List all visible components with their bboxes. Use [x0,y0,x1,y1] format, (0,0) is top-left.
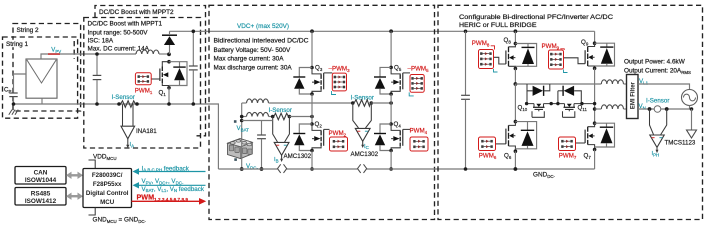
svg-text:IC: IC [364,144,369,150]
wire EMI to AC (N) with hall sensor [638,108,692,110]
PWM4 box [410,137,428,151]
svg-text:ISOW1044: ISOW1044 [25,177,57,184]
resistor shunt (boost I-sensor) [117,101,139,107]
wire R1 to phase1 column [289,116,312,118]
transistor Q5 [391,67,410,94]
DC/DC Boost with MPPT2 dashed box [95,6,206,136]
VDD wire [89,160,96,169]
wire to bottom rail [390,151,392,170]
svg-text:Battery Voltage: 50V- 500V: Battery Voltage: 50V- 500V [214,47,291,54]
op-amp INA181 [121,105,135,149]
svg-text:IB: IB [274,157,279,163]
node [389,66,393,70]
svg-text:Configurable Bi-directional PF: Configurable Bi-directional PFC/Inverter… [459,14,613,21]
svg-text:–PWM5: –PWM5 [408,66,430,74]
svg-text:VDC+ (max 520V): VDC+ (max 520V) [237,23,289,30]
wire: panel left to Cp [14,74,27,93]
transistor Q3 [312,68,332,95]
svg-text:Max discharge current: 30A: Max discharge current: 30A [214,64,293,71]
VDC+ top rail [170,30,595,32]
node: phase1 top [310,29,314,33]
wire battery+ to L2 [242,116,247,118]
transistor Q7 [576,123,595,149]
node: phase2 switch node [389,92,393,96]
Q9 body diode [595,43,615,66]
PWM7 box [559,137,576,151]
capacitor CP [9,93,17,104]
earth ground symbol [687,130,697,138]
D_h1 bottom connect [526,91,528,104]
svg-text:F28P55xx: F28P55xx [93,181,122,188]
svg-text:CAN: CAN [34,170,48,177]
transistor Q10 [532,104,545,118]
chassis ground hatch [9,110,18,115]
boost inductor L_boost [136,50,159,54]
AC to neutral + ground [689,106,691,110]
wire Q1 to bottom rail [168,88,170,104]
Q6 body diode [515,122,536,149]
wire L2 to shunt R1 [269,116,273,118]
svg-text:DC/DC Boost with MPPT2: DC/DC Boost with MPPT2 [99,9,174,16]
bottom rail (PV negative) [12,104,218,169]
wire phase1 column top [311,31,313,67]
node: phase1 switch node [310,92,314,96]
svg-text:ISC: 18A: ISC: 18A [88,38,114,45]
resistor shunt R1 [271,113,291,119]
svg-text:IPH: IPH [652,151,660,157]
DC link cap [461,30,470,171]
amplifier AMC1302 #1 funnel [273,117,290,163]
wire right leg down [594,68,596,123]
diode D_h2 [558,86,581,104]
red PWM arrow [132,198,207,205]
input cap [93,52,102,106]
wire: panel top to VPV rail [41,54,136,59]
output wire 2 (N) [593,107,597,111]
HERIC mosfet row [527,103,595,105]
transistor Q11 [563,104,576,118]
inductor L2 (phase1) [247,112,269,116]
svg-text:Output Power: 4.6kW: Output Power: 4.6kW [624,59,686,66]
wire EMI to AC (L) [638,84,690,90]
boost diode D1 [162,31,177,54]
diode (Q2 body) [293,124,312,151]
svg-text:I-Sensor: I-Sensor [112,94,135,101]
node VPV red tick [48,53,60,55]
wire leg down to output node [514,69,516,85]
diode (Q5 body) [374,67,391,94]
wire L1 to shunt R2 [269,102,353,104]
PV panel [26,59,57,98]
EMI Filter box [627,75,639,119]
svg-text:Max charge current: 30A: Max charge current: 30A [214,56,285,63]
PWM8 box [479,46,498,72]
svg-text:AMC1302: AMC1302 [351,151,379,158]
svg-text:TMCS1123: TMCS1123 [665,140,696,147]
hall sensor circle [654,106,661,113]
resistor shunt R2 [351,100,373,106]
CAN ISOW1044 box [15,167,66,185]
DC/DC Boost with MPPT1 dashed box [84,18,201,149]
svg-text:EMI Filter: EMI Filter [631,81,637,109]
output wire 1 (L) [515,83,601,85]
battery column to rail [241,140,243,170]
diode (Q3 body) [293,68,312,95]
svg-text:I-Sensor: I-Sensor [269,107,292,114]
left leg: node top [514,29,518,33]
svg-text:DC/DC Boost with MPPT1: DC/DC Boost with MPPT1 [88,21,163,28]
wire R2 to phase2 column [371,102,391,104]
battery cap [257,121,266,171]
transistor Q1 (boost MOSFET, mirrored) [152,60,171,90]
Q7 body diode [595,123,615,147]
middle dashed box [209,5,435,219]
PWM3 box [332,73,347,94]
svg-text:Max. DC current: 14A: Max. DC current: 14A [88,46,150,53]
transistor Q6 [496,122,516,152]
right dashed box [438,5,703,219]
inductor output L2 [601,105,623,109]
Q8 body diode [515,44,536,67]
Q1 body diode [169,62,187,86]
svg-text:F280039C/: F280039C/ [92,172,123,179]
svg-text:INA181: INA181 [136,128,157,135]
dashed edge segment [73,41,75,59]
hop I_C (current probe chevrons) [358,164,367,173]
battery + column [241,103,243,140]
svg-text:I-Sensor: I-Sensor [646,98,669,105]
svg-text:HERIC or FULL BRIDGE: HERIC or FULL BRIDGE [459,22,537,29]
svg-text:Output Current: 20ARMS: Output Current: 20ARMS [624,67,691,75]
battery pack icon [228,139,253,159]
node: Cp bottom junction [12,102,16,106]
svg-text:AMC1302: AMC1302 [284,153,312,160]
node: boost switch node [167,52,171,56]
svg-text:RS485: RS485 [31,191,51,198]
svg-text:Digital Control: Digital Control [86,190,129,197]
gray double arrow RS485-MCU [66,193,83,200]
phase1 column mid [311,94,313,124]
svg-text:ISOW1412: ISOW1412 [25,198,57,205]
svg-text:–PWM3: –PWM3 [329,66,351,74]
inductor L1 (phase2) [247,99,269,103]
svg-text:Input range: 50-500V: Input range: 50-500V [88,30,149,37]
right leg low: Q7 [593,121,597,125]
svg-text:IA: IA [130,142,135,148]
boost output cap [189,30,198,106]
svg-text:VPV: VPV [51,48,61,55]
RS485 ISOW1412 box [15,188,66,206]
svg-text:String 2: String 2 [17,27,39,34]
PWM6 box [479,137,496,151]
D_h2 left connect [557,91,559,104]
left leg low: Q6 [514,84,516,122]
amplifier AMC1302 #2 funnel [353,103,372,148]
MCU F280039C box [83,169,132,208]
AC source [682,90,698,106]
transistor Q4 [391,124,410,151]
String 1 dashed box [3,37,78,118]
phase2 column mid [390,94,392,124]
PWM2 box [330,137,348,151]
PWM5 box [409,75,424,96]
wire phase2 column top [390,31,392,67]
inductor output L1 [601,80,623,84]
teal feedback arrow 1 [133,168,206,174]
wire to bottom rail [311,151,313,170]
transistor Q8 [494,44,516,69]
right leg: rail corner [594,31,596,43]
teal bullet [234,120,237,123]
svg-text:Bidirectional interleaved DC/D: Bidirectional interleaved DC/DC [214,38,309,45]
gray double arrow CAN-MCU [66,172,83,179]
wire inductor to node [159,53,170,55]
wire: panel bottom to rail [41,98,43,104]
wire battery+ to L1 [242,102,247,104]
PWM1 red dashed box [135,73,151,85]
transistor Q2 [312,124,330,151]
svg-text:String 1: String 1 [6,41,28,48]
wire battery to cap/sense [242,120,273,122]
node: phase2 top [389,29,393,33]
String 2 dashed box [13,24,81,112]
diode (Q4 body) [374,124,391,151]
svg-text:MCU: MCU [100,199,115,206]
amplifier TMCS1123 funnel [650,109,667,153]
PWM9 box [549,49,568,73]
hop I_B (current probe chevrons) [278,164,287,173]
transistor Q9 [564,43,595,68]
teal bullet [234,158,237,161]
bottom rail VDC- with hops [218,168,594,170]
GND wire [89,208,96,216]
teal feedback arrow 2 [133,182,206,188]
diode D_h1 [527,84,550,96]
node [310,66,314,70]
